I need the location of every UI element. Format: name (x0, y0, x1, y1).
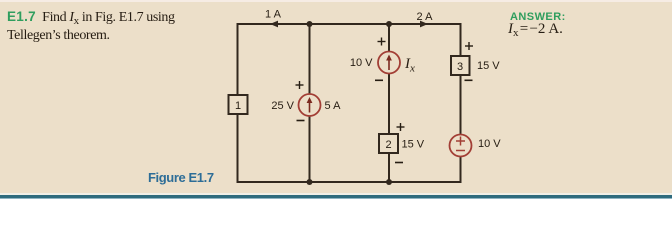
wire: left branch upper segment (237, 23, 239, 95)
wire: Ix branch lower segment (388, 153, 390, 183)
polarity + of element 3 (465, 42, 473, 50)
junction dot at top of Ix branch (386, 21, 392, 27)
svg-text:3: 3 (457, 61, 463, 73)
polarity - of element 3 (465, 79, 473, 81)
junction dot at top of 5A branch (307, 21, 313, 27)
svg-text:10 V: 10 V (478, 138, 501, 150)
wire: 5A-source branch upper segment (309, 23, 311, 95)
svg-text:5 A: 5 A (325, 100, 342, 112)
element 1 box (229, 95, 248, 114)
wire: left branch lower segment (237, 114, 239, 183)
answer heading (510, 11, 566, 23)
polarity - of element 2 (395, 162, 403, 164)
junction dot at bottom of 5A branch (307, 179, 313, 185)
current source Ix circle (378, 52, 400, 74)
wire: 5A-source branch lower segment (309, 116, 311, 184)
svg-text:1 A: 1 A (265, 9, 282, 21)
polarity - of 5A source (297, 120, 305, 122)
svg-text:2: 2 (385, 139, 391, 151)
answer value (508, 21, 563, 38)
polarity + inside 10V source (456, 137, 465, 146)
current source 5A circle (299, 94, 321, 116)
current source 5A arrow (307, 97, 313, 113)
wire: top rail from top-left corner to top-right corner (238, 23, 461, 25)
current source Ix arrow (386, 55, 392, 71)
polarity + of 5A source (296, 81, 304, 89)
junction dot at bottom of Ix branch (386, 179, 392, 185)
current arrow 2 A pointing right (420, 21, 428, 28)
element 3 box (451, 56, 470, 75)
polarity + of Ix source (378, 38, 386, 46)
svg-text:2 A: 2 A (417, 11, 434, 23)
svg-text:15 V: 15 V (477, 60, 500, 72)
polarity + of element 2 (397, 123, 405, 131)
element 2 box (379, 134, 398, 153)
wire: Ix branch upper segment (388, 23, 390, 52)
wire: bottom rail (238, 181, 461, 183)
wire: right branch middle segment (460, 74, 462, 135)
svg-text:10 V: 10 V (350, 57, 373, 69)
polarity - inside 10V source (456, 150, 465, 152)
problem statement text (7, 8, 237, 44)
svg-text:15 V: 15 V (402, 139, 425, 151)
polarity - of Ix source (375, 79, 383, 81)
svg-text:1: 1 (235, 100, 241, 112)
svg-text:Ix: Ix (404, 56, 415, 75)
voltage source 10V circle (450, 135, 472, 157)
svg-text:25 V: 25 V (271, 100, 294, 112)
wire: right branch upper segment (460, 23, 462, 56)
figure caption (148, 170, 214, 185)
current arrow 1 A pointing left (270, 21, 278, 28)
wire: Ix branch middle segment (388, 73, 390, 134)
wire: right branch lower segment (460, 157, 462, 184)
